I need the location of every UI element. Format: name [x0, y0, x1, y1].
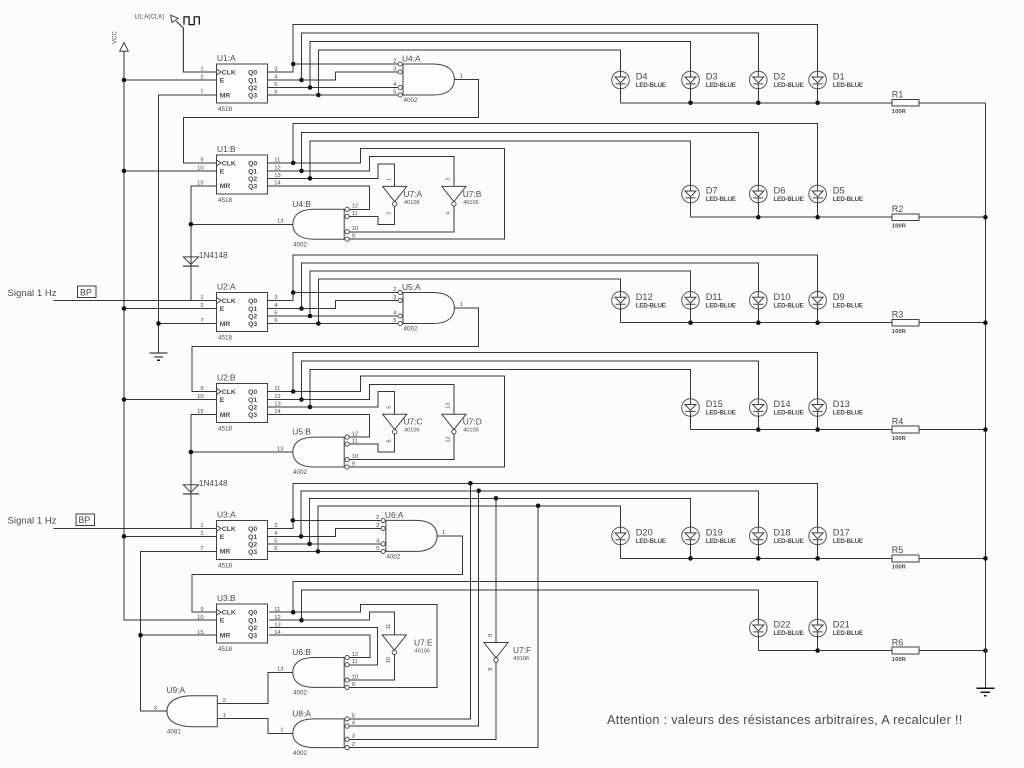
svg-text:1: 1: [460, 74, 463, 80]
svg-text:13: 13: [277, 218, 283, 224]
inverter U7:C output bubble: [393, 430, 397, 434]
wire U4:B output pin 13: [191, 223, 293, 225]
LED D19 LED-BLUE: [682, 527, 700, 545]
wire U3:A Q3 vertical to U8:A pin 2: [349, 506, 538, 748]
svg-text:U2:A: U2:A: [217, 282, 236, 292]
svg-text:D10: D10: [774, 292, 791, 302]
gate U6:A 4002 body: [386, 520, 437, 551]
junction U3:A Q3 riser: [316, 549, 321, 554]
clock source symbol: [171, 15, 179, 22]
junction rail / LED D11: [688, 320, 693, 325]
inverter U7:D output bubble: [452, 430, 456, 434]
wire U3:A Q1 jog to U6:A pin 3: [268, 528, 381, 536]
svg-text:40106: 40106: [463, 428, 479, 434]
junction U1:A Q2 riser: [308, 85, 313, 90]
svg-text:D15: D15: [706, 399, 723, 409]
LED D13 LED-BLUE: [809, 399, 827, 417]
wire U1:B Q0 riser to LED D5: [293, 124, 817, 186]
wire U1:B Q1 to U7:B input: [268, 157, 454, 187]
wire U7:E output pin 10 to U6:B pin 10: [349, 655, 394, 681]
junction rail / LED D13: [815, 427, 820, 432]
svg-text:U7:A: U7:A: [404, 189, 423, 199]
wire U2:A Q3 riser and wire to LED D12: [318, 279, 620, 324]
svg-text:D17: D17: [833, 527, 850, 537]
svg-text:3: 3: [446, 178, 452, 181]
wire LED D3 cathode to rail: [690, 88, 692, 103]
svg-text:Q3: Q3: [248, 549, 257, 556]
junction U2:B Q2 riser: [308, 405, 313, 410]
wire U3:B Q2 to U6:B pin 11: [269, 628, 378, 665]
gate U9:A 4081 body: [167, 696, 217, 727]
svg-text:MR: MR: [220, 633, 231, 640]
wire U1:A Q3 to U4:A pin 5: [268, 94, 398, 96]
svg-text:D2: D2: [774, 72, 786, 82]
wire VCC to U1:A E pin: [124, 79, 217, 81]
junction U1:B Q1 riser: [299, 169, 304, 174]
svg-text:LED-BLUE: LED-BLUE: [774, 538, 804, 545]
junction U2:A Q0 riser: [291, 290, 296, 295]
svg-text:100R: 100R: [892, 565, 907, 571]
wire U2:B Q3 to U5:B pin 12: [268, 415, 370, 438]
wire U1:A MR pin 7 / U2:A MR pin 7 to ground: [159, 95, 217, 353]
inverter U7:B 40106 body: [442, 186, 466, 201]
junction U1:B Q2 riser: [308, 176, 313, 181]
wire U2:B Q1 to U7:D input: [268, 384, 454, 414]
svg-text:U3:B: U3:B: [217, 593, 236, 603]
svg-text:LED-BLUE: LED-BLUE: [833, 630, 863, 637]
junction bus / R4 rail: [983, 427, 988, 432]
svg-text:4002: 4002: [404, 97, 419, 104]
svg-text:CLK: CLK: [222, 389, 236, 396]
wire U3:A Q3 riser and wire to LED D20: [318, 506, 621, 552]
wire LED rail to resistor R5: [621, 557, 893, 559]
junction rail / LED D17: [815, 556, 820, 561]
resistor R3 body: [892, 319, 919, 326]
svg-text:Q2: Q2: [248, 85, 257, 92]
counter U2:A 4518 body: [217, 293, 268, 332]
junction U3:A Q0 riser: [291, 518, 296, 523]
resistor R4 body: [892, 426, 919, 433]
wire U1:B Q1 riser to LED D6: [302, 132, 759, 186]
wire U3:B Q1 to U7:E input pin 11: [269, 612, 395, 635]
svg-text:4518: 4518: [218, 106, 233, 113]
svg-text:100R: 100R: [892, 657, 907, 663]
inverter U7:B output bubble: [452, 202, 456, 206]
svg-text:U9:A: U9:A: [167, 685, 186, 695]
svg-text:Q0: Q0: [248, 526, 257, 533]
svg-text:5: 5: [352, 713, 355, 719]
wire U5:A output pin 1 to U2:B CLK pin 9: [192, 308, 478, 392]
svg-text:D12: D12: [636, 292, 653, 302]
junction U5:B output / MR line: [189, 450, 194, 455]
wire U1:A Q2 riser and wire to LED D3: [310, 42, 691, 88]
svg-text:Q1: Q1: [248, 168, 257, 175]
svg-text:Q1: Q1: [248, 618, 257, 625]
wire U3:B Q0 to U6:B pin 9: [269, 604, 437, 687]
wire U3:A Q0 vertical to U8:A pin 5: [349, 483, 470, 719]
svg-text:Q1: Q1: [248, 534, 257, 541]
wire R6 to right bus: [919, 650, 985, 652]
wire U1:A Q3 riser and wire to LED D4: [318, 50, 620, 95]
wire LED D19 cathode to rail: [690, 544, 692, 558]
wire U1:A Q1 jog to U4:A pin 3: [268, 72, 398, 80]
svg-text:Q0: Q0: [248, 160, 257, 167]
wire U2:A Q0 riser and top wire to LED D9: [293, 255, 817, 293]
wire U2:B Q0 riser to LED D13: [293, 352, 817, 399]
wire U2:B Q1 riser to LED D14: [302, 361, 759, 400]
svg-text:LED-BLUE: LED-BLUE: [706, 410, 736, 417]
gate U4:A 4002 body: [403, 64, 454, 95]
svg-text:U3:A: U3:A: [217, 509, 236, 519]
wire U3:A Q2 to U6:A pin 4: [268, 543, 381, 545]
svg-text:4: 4: [446, 212, 452, 215]
svg-text:U1:A: U1:A: [217, 53, 236, 63]
wire LED rail to resistor R1: [621, 102, 893, 104]
wire R2 to right bus: [919, 216, 985, 218]
svg-text:40106: 40106: [404, 200, 420, 206]
svg-text:Q2: Q2: [248, 405, 257, 412]
wire LED D2 cathode to rail: [757, 88, 759, 103]
wire LED rail to resistor R4: [691, 429, 893, 431]
wire U3:B MR pin 15 to MR chain: [141, 634, 217, 636]
wire LED rail row6 to R6: [758, 650, 892, 652]
svg-text:CLK: CLK: [222, 298, 236, 305]
svg-text:R2: R2: [892, 204, 904, 214]
junction VCC / U1:B E: [122, 169, 127, 174]
wire VCC to U2:B E pin: [124, 399, 217, 401]
svg-text:10: 10: [197, 615, 203, 621]
svg-text:Signal 1 Hz: Signal 1 Hz: [8, 288, 57, 299]
svg-text:U1:A(CLK): U1:A(CLK): [135, 14, 165, 21]
svg-text:Q1: Q1: [248, 397, 257, 404]
svg-text:E: E: [220, 306, 225, 313]
svg-text:1N4148: 1N4148: [199, 251, 228, 260]
junction rail / LED D6: [756, 215, 761, 220]
gate U5:A 4002 body: [403, 293, 454, 324]
svg-text:D5: D5: [833, 186, 845, 196]
wire U3:A Q3 to U6:A pin 5: [268, 550, 381, 552]
LED D15 LED-BLUE: [682, 399, 700, 417]
svg-text:100R: 100R: [892, 436, 907, 442]
LED D10 LED-BLUE: [750, 292, 768, 310]
svg-text:U8:A: U8:A: [292, 708, 311, 718]
svg-text:3: 3: [376, 523, 379, 529]
svg-text:U2:B: U2:B: [217, 373, 236, 383]
junction U3:B Q1 riser: [299, 618, 304, 623]
svg-text:R1: R1: [892, 90, 904, 100]
wire U1:A Q0 jog to U4:A pin 2: [268, 64, 398, 72]
junction rail / LED D1: [815, 101, 820, 106]
svg-text:CLK: CLK: [222, 70, 236, 77]
svg-text:100R: 100R: [892, 223, 907, 229]
svg-text:1: 1: [280, 727, 283, 733]
svg-text:E: E: [220, 397, 225, 404]
wire U2:A Q0 jog to U5:A pin 2: [268, 293, 398, 301]
wire R1 to right bus: [919, 102, 985, 104]
junction Q2 wire / U7:F input riser: [494, 496, 499, 501]
svg-text:D3: D3: [706, 72, 718, 82]
junction rail / LED D10: [756, 320, 761, 325]
svg-text:MR: MR: [220, 412, 231, 419]
push-button BP 1: [78, 286, 97, 297]
LED D5 LED-BLUE: [809, 185, 827, 203]
LED D18 LED-BLUE: [750, 527, 768, 545]
svg-text:LED-BLUE: LED-BLUE: [774, 410, 804, 417]
wire LED D12 cathode to rail: [620, 309, 622, 323]
wire U7:A output to U4:B pin 11: [349, 206, 395, 224]
wire LED D10 cathode to rail: [757, 309, 759, 323]
junction rail / LED D14: [756, 427, 761, 432]
inverter U7:E 40106 body: [382, 635, 406, 650]
inverter U7:A output bubble: [393, 202, 397, 206]
svg-text:4518: 4518: [218, 426, 233, 433]
junction Q3 wire / U8:A pin 2 riser: [536, 504, 541, 509]
wire LED D21 cathode to rail: [817, 636, 819, 650]
wire U3:A Q2 vertical to U7:F input pin 9: [495, 498, 497, 642]
wire U3:A Q0 jog to U6:A pin 2: [268, 520, 381, 528]
wire U3:A Q2 riser and wire to LED D19: [310, 498, 691, 544]
gate U6:A input bubbles: [381, 518, 385, 522]
junction bus / R5 rail: [983, 556, 988, 561]
wire U2:B MR line down through diode to U3:A CLK: [191, 415, 217, 529]
svg-text:CLK: CLK: [222, 526, 236, 533]
svg-text:Q3: Q3: [248, 633, 257, 640]
wire LED D14 cathode to rail: [757, 416, 759, 430]
counter U1:A 4518 body: [217, 64, 268, 103]
svg-text:VCC: VCC: [113, 31, 119, 44]
wire U3:A Q1 riser and wire to LED D18: [301, 491, 758, 537]
counter U2:B 4518 body: [217, 384, 268, 423]
junction rail / LED D5: [815, 215, 820, 220]
svg-text:MR: MR: [220, 549, 231, 556]
svg-text:13: 13: [277, 667, 283, 673]
wire U8:A output pin 1 to U9:A pin 1: [217, 719, 292, 734]
wire clock to U1:A CLK pin 1: [176, 21, 216, 72]
svg-text:4002: 4002: [404, 326, 419, 333]
inverter U7:D 40106 body: [442, 414, 466, 429]
wire U2:A Q1 jog to U5:A pin 3: [268, 301, 398, 309]
svg-text:1: 1: [387, 178, 393, 181]
wire U1:B Q2 to U7:A input: [268, 164, 395, 187]
svg-text:4081: 4081: [167, 729, 182, 736]
LED D1 LED-BLUE: [809, 71, 827, 89]
junction VCC / U2:B E: [122, 397, 127, 402]
svg-text:4518: 4518: [218, 197, 233, 204]
svg-text:Q0: Q0: [248, 610, 257, 617]
wire U1:A Q2 to U4:A pin 4: [268, 87, 398, 89]
svg-text:Q1: Q1: [248, 306, 257, 313]
wire U2:A Q1 riser and wire to LED D10: [302, 263, 759, 309]
svg-text:Q2: Q2: [248, 176, 257, 183]
junction VCC / U2:A E: [122, 306, 127, 311]
junction bus / R2 rail: [983, 215, 988, 220]
svg-text:10: 10: [386, 657, 392, 663]
wire U1:B Q2 riser to LED D7: [310, 141, 691, 186]
gate U6:B input bubbles: [345, 655, 349, 659]
svg-text:BP: BP: [79, 515, 91, 525]
svg-text:E: E: [220, 618, 225, 625]
svg-text:Q3: Q3: [248, 321, 257, 328]
svg-text:R3: R3: [892, 310, 904, 320]
svg-text:D7: D7: [706, 186, 718, 196]
junction U2:A Q1 riser: [299, 306, 304, 311]
wire U2:B Q2 to U7:C input: [268, 392, 395, 415]
wire U4:A output pin 1 to U1:B CLK pin 9: [183, 80, 478, 163]
svg-text:9: 9: [488, 634, 494, 637]
wire U2:B Q0 outer loop to U5:B pin 9: [268, 376, 505, 467]
wire U2:A Q2 riser and wire to LED D11: [310, 271, 691, 316]
gate U8:A 4002 body: [293, 719, 344, 748]
svg-text:D21: D21: [833, 620, 850, 630]
wire LED D11 cathode to rail: [690, 309, 692, 323]
LED D17 LED-BLUE: [809, 527, 827, 545]
junction MR ground line / U2:A MR: [156, 321, 161, 326]
svg-text:MR: MR: [220, 92, 231, 99]
svg-text:4002: 4002: [386, 553, 401, 560]
svg-text:Q3: Q3: [248, 93, 257, 100]
junction U1:A Q0 riser: [291, 62, 296, 67]
svg-text:40106: 40106: [463, 200, 479, 206]
svg-text:U7:C: U7:C: [404, 417, 423, 427]
svg-text:12: 12: [446, 436, 452, 442]
resistor R2 body: [892, 214, 919, 221]
svg-text:BP: BP: [80, 287, 92, 297]
svg-text:LED-BLUE: LED-BLUE: [774, 82, 804, 89]
svg-text:LED-BLUE: LED-BLUE: [833, 538, 863, 545]
svg-text:Q3: Q3: [248, 412, 257, 419]
LED D12 LED-BLUE: [612, 292, 630, 310]
svg-text:LED-BLUE: LED-BLUE: [774, 196, 804, 203]
svg-text:4002: 4002: [293, 690, 308, 697]
wire U3:B Q0 riser to LED D21: [293, 582, 817, 620]
svg-text:Q1: Q1: [248, 78, 257, 85]
inverter U7:E output bubble: [392, 650, 396, 654]
svg-text:LED-BLUE: LED-BLUE: [833, 410, 863, 417]
svg-text:Q3: Q3: [248, 183, 257, 190]
wire LED rail to resistor R2: [691, 216, 893, 218]
svg-text:R6: R6: [892, 637, 904, 647]
wire LED D1 cathode to rail: [817, 88, 819, 103]
svg-text:U7:D: U7:D: [463, 417, 482, 427]
wire U7:C output to U5:B pin 11: [349, 434, 395, 452]
LED D7 LED-BLUE: [682, 185, 700, 203]
svg-text:1: 1: [460, 302, 463, 308]
junction Q1 wire / U8:A pin 4 riser: [476, 489, 481, 494]
svg-text:100R: 100R: [892, 329, 907, 335]
gate U6:B 4002 body: [293, 658, 344, 688]
junction rail / LED D21: [815, 648, 820, 653]
junction U2:B Q0 riser: [291, 389, 296, 394]
wire LED D7 cathode to rail: [690, 202, 692, 217]
svg-text:D18: D18: [774, 527, 791, 537]
svg-text:Q2: Q2: [248, 541, 257, 548]
right bus vertical wire: [984, 103, 986, 689]
LED D3 LED-BLUE: [682, 71, 700, 89]
junction rail / LED D9: [815, 320, 820, 325]
LED D20 LED-BLUE: [612, 527, 630, 545]
wire LED D18 cathode to rail: [757, 544, 759, 558]
svg-text:E: E: [220, 168, 225, 175]
junction U2:A Q3 riser: [316, 321, 321, 326]
svg-text:2: 2: [387, 212, 393, 215]
junction U3:A Q1 riser: [299, 534, 304, 539]
svg-text:4002: 4002: [293, 469, 308, 476]
LED D4 LED-BLUE: [612, 71, 630, 89]
svg-text:4518: 4518: [218, 646, 233, 653]
svg-text:1N4148: 1N4148: [199, 479, 228, 488]
svg-text:CLK: CLK: [222, 160, 236, 167]
junction U1:B Q0 riser: [291, 161, 296, 166]
svg-text:3: 3: [154, 705, 157, 711]
svg-text:U6:A: U6:A: [385, 510, 404, 520]
junction rail / LED D2: [756, 101, 761, 106]
LED D11 LED-BLUE: [682, 292, 700, 310]
svg-text:LED-BLUE: LED-BLUE: [774, 630, 804, 637]
svg-text:U5:B: U5:B: [292, 427, 311, 437]
svg-text:4518: 4518: [218, 335, 233, 342]
svg-text:LED-BLUE: LED-BLUE: [833, 82, 863, 89]
inverter U7:A 40106 body: [383, 186, 407, 201]
svg-text:LED-BLUE: LED-BLUE: [636, 302, 666, 309]
svg-text:100R: 100R: [892, 109, 907, 115]
LED D14 LED-BLUE: [750, 399, 768, 417]
wire LED D13 cathode to rail: [817, 416, 819, 430]
VCC rail vertical wire: [124, 51, 217, 620]
svg-text:5: 5: [376, 546, 379, 552]
wire LED D15 cathode to rail: [690, 416, 692, 430]
wire R4 to right bus: [919, 429, 985, 431]
VCC power symbol: [120, 43, 129, 52]
wire U3:B Q3 to U6:B pin 12: [269, 635, 370, 657]
wire U7:F output pin 8 to U8:A pin 3: [349, 662, 496, 739]
gate U4:B 4002 body: [293, 209, 344, 239]
wire U1:B Q0 outer loop to U4:B pin 9: [268, 148, 505, 239]
svg-text:R4: R4: [892, 416, 904, 426]
resistor R1 body: [892, 99, 919, 106]
junction R6 / right bus: [983, 648, 988, 653]
LED D2 LED-BLUE: [750, 71, 768, 89]
junction U3:A Q2 riser: [307, 542, 312, 547]
wire R5 to right bus: [919, 557, 985, 559]
junction MR chain / U3:B MR: [138, 633, 143, 638]
wire LED D5 cathode to rail: [817, 202, 819, 217]
svg-text:9: 9: [352, 682, 355, 688]
gate U4:A input bubbles: [398, 62, 402, 66]
junction bus / R3 rail: [983, 320, 988, 325]
junction rail / LED D19: [688, 556, 693, 561]
svg-text:MR: MR: [220, 321, 231, 328]
svg-text:LED-BLUE: LED-BLUE: [706, 538, 736, 545]
wire LED D17 cathode to rail: [817, 544, 819, 558]
junction U1:A Q1 riser: [299, 78, 304, 83]
junction VCC / U1:A E: [122, 78, 127, 83]
wire U9:A output pin 3 / MR chain of U3:A and U3:B: [141, 551, 217, 711]
svg-text:LED-BLUE: LED-BLUE: [706, 82, 736, 89]
svg-text:Q0: Q0: [248, 298, 257, 305]
svg-text:D11: D11: [706, 292, 722, 302]
wire LED D9 cathode to rail: [817, 309, 819, 323]
gate U5:B 4002 body: [293, 437, 344, 467]
ground right: [976, 688, 994, 695]
svg-text:D20: D20: [636, 527, 653, 537]
svg-text:R5: R5: [892, 545, 904, 555]
junction rail / LED D3: [688, 101, 693, 106]
svg-text:40106: 40106: [415, 648, 431, 654]
svg-text:CLK: CLK: [222, 610, 236, 617]
svg-text:LED-BLUE: LED-BLUE: [833, 302, 863, 309]
junction U2:B Q1 riser: [299, 397, 304, 402]
svg-text:U4:B: U4:B: [292, 199, 311, 209]
